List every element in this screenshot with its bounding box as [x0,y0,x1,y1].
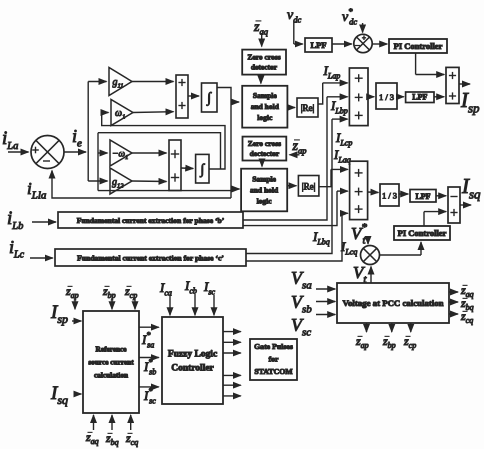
svg-text:g12: g12 [112,177,124,190]
svg-text:STATCOM: STATCOM [254,367,293,376]
svg-text:LPF: LPF [412,93,427,102]
svg-text:Ica: Ica [159,280,172,297]
svg-text:Isc: Isc [203,279,215,296]
svg-text:Vsb: Vsb [291,292,312,316]
svg-text:−ω1: −ω1 [112,150,128,161]
svg-text:ie: ie [72,126,82,150]
svg-text:Isp: Isp [460,88,480,115]
svg-text:Isq: Isq [50,383,68,407]
svg-text:Fuzzy Logic: Fuzzy Logic [168,349,217,359]
svg-text:detector: detector [251,63,278,72]
svg-text:calculation: calculation [94,371,128,380]
svg-text:+: + [362,34,366,42]
svg-text:Vsc: Vsc [291,315,311,339]
svg-text:ILbq: ILbq [312,229,330,246]
svg-text:Isq: Isq [461,174,481,201]
svg-text:Zero cross: Zero cross [247,53,280,62]
svg-text:PI Controller: PI Controller [398,228,447,238]
svg-text:ILbp: ILbp [330,98,348,115]
svg-text:1 / 3: 1 / 3 [379,92,394,102]
svg-text:logic: logic [257,197,273,206]
svg-text:g11: g11 [113,77,124,90]
svg-text:Zero cross: Zero cross [248,139,281,148]
svg-text:for: for [269,355,279,364]
svg-text:Voltage at PCC calculation: Voltage at PCC calculation [342,298,443,308]
svg-text:Controller: Controller [171,363,214,373]
svg-text:|Re|: |Re| [301,103,315,113]
svg-text:PI Controller: PI Controller [394,41,443,51]
svg-text:Isp: Isp [50,302,68,326]
svg-text:Icb: Icb [184,278,197,295]
svg-text:and hold: and hold [250,186,279,195]
svg-text:zap: zap [292,139,307,156]
svg-text:dectector: dectector [250,149,280,158]
svg-text:Gate Pulses: Gate Pulses [254,342,293,351]
svg-text:zaq: zaq [253,20,269,37]
svg-text:ILaq: ILaq [333,147,351,164]
svg-text:iLla: iLla [27,179,47,201]
svg-text:I*sb: I*sb [143,358,156,377]
svg-text:I*sa: I*sa [141,331,154,350]
svg-text:I*sc: I*sc [143,387,156,406]
svg-text:Vt: Vt [353,263,367,285]
svg-text:Fundamental current extraction: Fundamental current extraction for phase… [77,254,224,263]
svg-text:ILap: ILap [323,63,341,80]
svg-text:∫: ∫ [199,163,205,178]
svg-text:iLc: iLc [9,237,25,261]
svg-text:Reference: Reference [95,345,127,354]
svg-text:and hold: and hold [251,102,280,111]
svg-text:Sample: Sample [253,91,277,100]
svg-text:ILcp: ILcp [335,130,352,147]
svg-text:source current: source current [88,358,134,367]
svg-text:iLa: iLa [2,128,18,152]
svg-text:logic: logic [257,113,273,122]
svg-text:Fundamental current extraction: Fundamental current extraction for phase… [77,216,225,225]
svg-text:ω1: ω1 [115,108,125,121]
svg-text:∫: ∫ [206,91,212,106]
svg-text:v*dc: v*dc [342,6,357,27]
svg-text:|Re|: |Re| [302,182,316,192]
svg-text:1 / 3: 1 / 3 [382,191,397,201]
svg-text:LPF: LPF [415,192,430,201]
svg-text:LPF: LPF [310,40,326,50]
svg-text:iLb: iLb [7,208,23,232]
svg-text:V*t: V*t [351,222,367,247]
svg-text:Vsa: Vsa [291,268,312,292]
svg-text:Sample: Sample [252,175,276,184]
